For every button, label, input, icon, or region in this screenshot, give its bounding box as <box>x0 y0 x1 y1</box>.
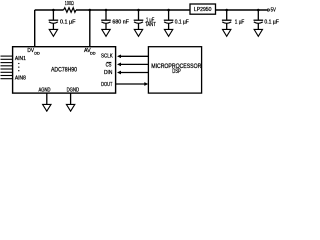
wire DGND stub <box>70 93 72 104</box>
node at C6 <box>257 9 260 12</box>
ground AGND <box>43 104 51 111</box>
svg-text:AIN8: AIN8 <box>15 76 26 82</box>
capacitor C6 0.1uF <box>254 10 264 29</box>
node at C3 <box>137 9 140 12</box>
svg-text:SCLK: SCLK <box>101 54 113 60</box>
node at C4 <box>167 9 170 12</box>
svg-text:LP2950: LP2950 <box>194 7 212 13</box>
svg-text:DD: DD <box>34 50 40 55</box>
node at C5 <box>225 9 228 12</box>
svg-text:1 µF: 1 µF <box>235 20 245 26</box>
svg-text:DSP: DSP <box>172 68 181 75</box>
node at AVDD <box>89 9 92 12</box>
wire DOUT <box>116 83 145 85</box>
svg-text:DD: DD <box>90 50 96 55</box>
analog input stubs AIN1..AIN8 <box>1 56 13 79</box>
svg-text:0.1 µF: 0.1 µF <box>60 20 76 26</box>
arrowhead DIN into ADC <box>117 71 121 75</box>
svg-text:100Ω: 100Ω <box>65 1 74 7</box>
ground of C1 <box>49 29 57 36</box>
node junction dots on rail <box>52 9 260 12</box>
microprocessor U3 box <box>148 47 201 93</box>
resistor R1 100 Ohm <box>64 8 77 13</box>
arrowhead SCLK into ADC <box>117 54 121 58</box>
node at C2 <box>105 9 108 12</box>
ground of C3 <box>134 29 142 36</box>
ground of C6 <box>254 29 262 36</box>
wire AVDD vertical <box>89 10 91 47</box>
wire DVDD vertical <box>34 10 36 47</box>
terminal 5V <box>267 9 269 11</box>
arrowhead CS into ADC <box>117 63 121 67</box>
svg-text:AIN1: AIN1 <box>15 56 26 62</box>
svg-text:DIN: DIN <box>104 70 112 76</box>
svg-text:0.1 µF: 0.1 µF <box>175 20 190 26</box>
svg-text:AGND: AGND <box>39 87 51 93</box>
ground of C5 <box>223 29 231 36</box>
ground of C4 <box>164 29 172 36</box>
ellipsis dots between AIN1 and AIN8 <box>18 63 19 72</box>
wire top rail middle segment <box>76 9 190 11</box>
capacitor C5 1uF <box>222 10 232 29</box>
svg-text:TANT: TANT <box>145 22 156 28</box>
ground of C2 <box>102 29 110 36</box>
svg-text:0.1 µF: 0.1 µF <box>264 20 279 26</box>
capacitor C1 0.1uF <box>49 10 59 29</box>
regulator U2 LP2950 <box>190 4 216 14</box>
ADC U1 ADC78H90 box <box>13 47 116 93</box>
svg-text:680 nF: 680 nF <box>112 20 129 26</box>
capacitor C3 1uF TANT <box>134 10 144 29</box>
capacitor C4 0.1uF <box>164 10 174 29</box>
svg-text:DGND: DGND <box>67 87 80 93</box>
ground DGND <box>66 104 74 111</box>
capacitor C2 680nF <box>101 10 111 29</box>
arrowhead DOUT into microprocessor <box>144 82 148 86</box>
wire top rail left segment <box>35 9 64 11</box>
wire top rail right segment <box>216 9 267 11</box>
overline of CS <box>107 61 112 63</box>
svg-text:DOUT: DOUT <box>101 82 113 88</box>
wire CS <box>121 63 149 65</box>
wire SCLK <box>121 55 149 57</box>
svg-text:5V: 5V <box>271 8 277 14</box>
svg-text:ADC78H90: ADC78H90 <box>51 67 77 74</box>
svg-text:CS: CS <box>106 63 112 69</box>
wire DIN <box>121 72 149 74</box>
node at C1 <box>52 9 55 12</box>
wire AGND stub <box>46 93 48 104</box>
